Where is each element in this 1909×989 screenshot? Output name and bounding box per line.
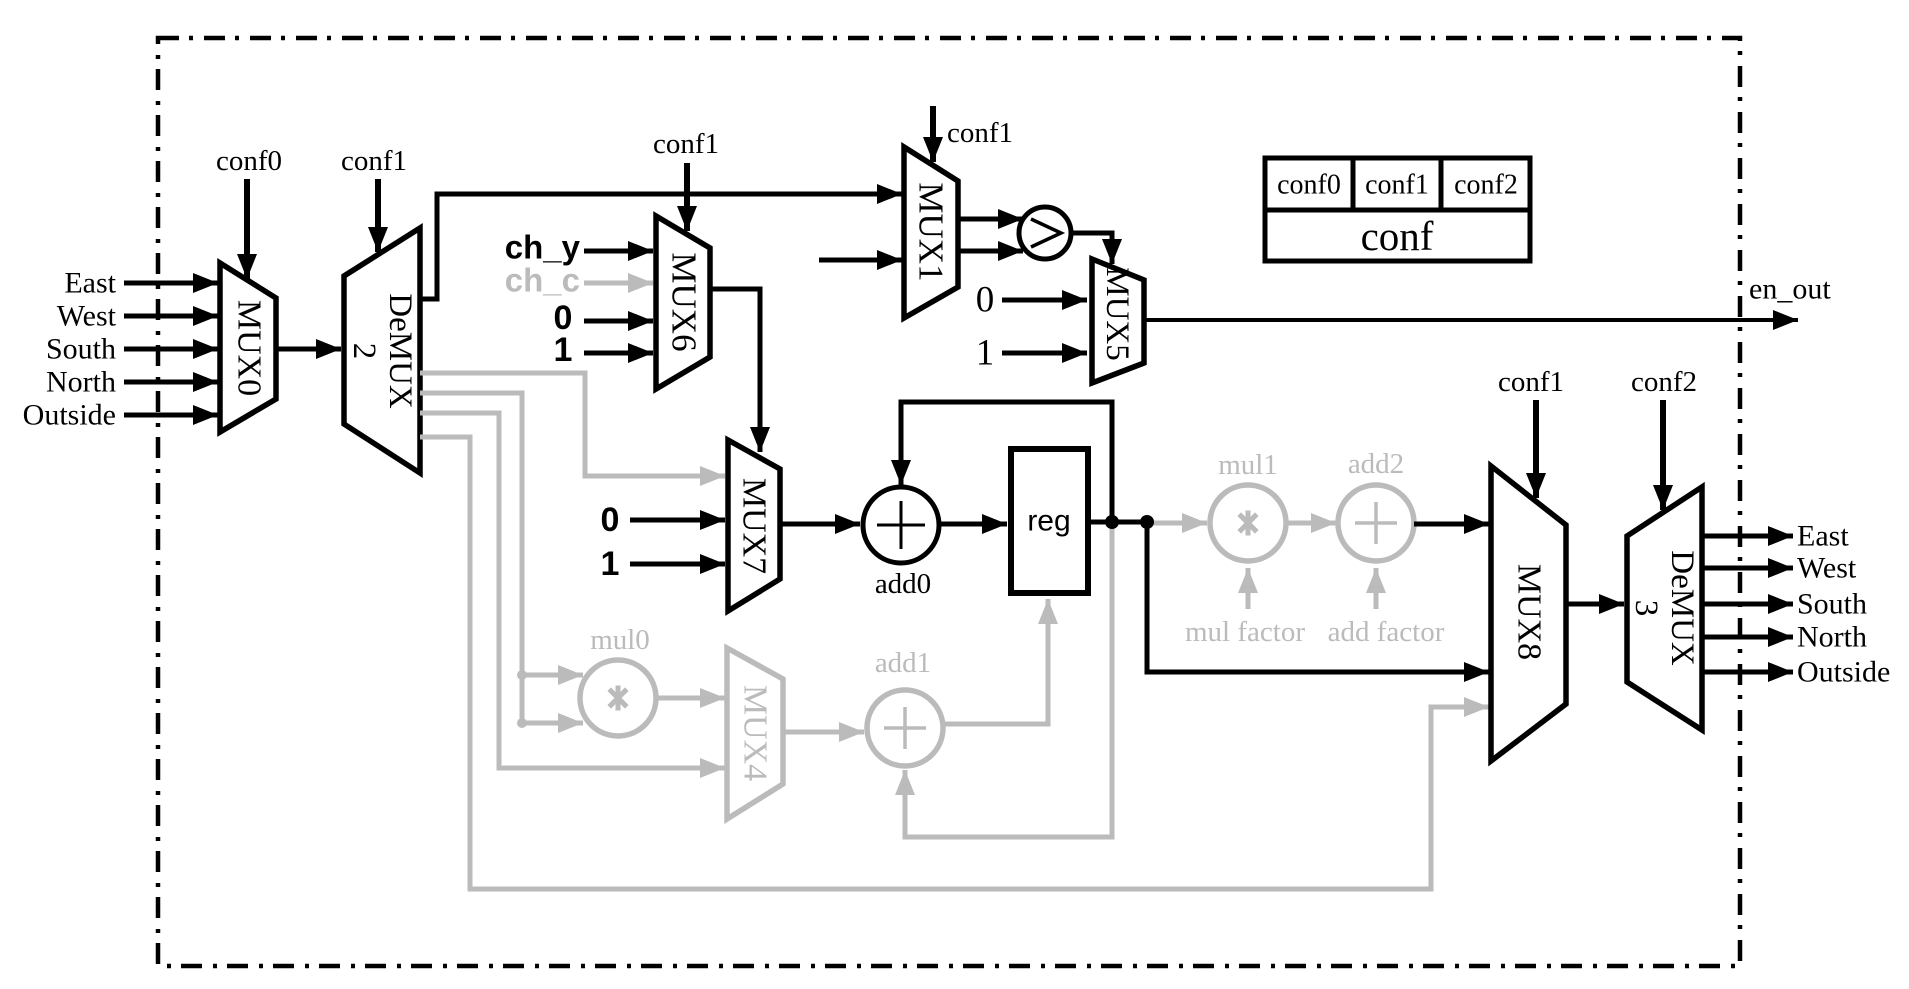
wire MUX1 output B to comparator <box>958 249 1023 254</box>
wire constant 0 to MUX6 <box>584 319 653 324</box>
wire branch to mul0 input B <box>522 721 583 726</box>
register reg <box>1011 449 1088 593</box>
svg-text:conf1: conf1 <box>1498 366 1564 398</box>
multiplier mul0 <box>580 660 656 736</box>
svg-text:conf0: conf0 <box>216 145 282 177</box>
svg-text:MUX7: MUX7 <box>736 478 773 574</box>
svg-text:MUX6: MUX6 <box>665 252 704 351</box>
svg-text:add2: add2 <box>1348 448 1404 480</box>
wire constant 1 to MUX6 <box>584 351 653 356</box>
label DeMUX2 <box>346 293 418 409</box>
add1 plus sign <box>884 707 926 749</box>
mux MUX6 <box>656 216 710 389</box>
svg-text:South: South <box>1797 588 1867 621</box>
node junction MUX8 tap <box>1140 515 1154 529</box>
wire DeMUX2 gray output to MUX7 <box>420 373 725 476</box>
svg-text:North: North <box>46 366 116 399</box>
svg-text:MUX5: MUX5 <box>1099 267 1135 361</box>
wire DeMUX2 output to MUX1 input A <box>420 194 902 299</box>
svg-text:DeMUX: DeMUX <box>382 293 418 409</box>
wire constant 0 to MUX5 <box>1002 298 1087 303</box>
demux DeMUX2 <box>344 228 420 473</box>
svg-text:MUX0: MUX0 <box>231 300 268 396</box>
wire input Outside to MUX0 <box>124 413 218 418</box>
wire ch_c to MUX6 <box>584 281 653 286</box>
wire input South to MUX0 <box>124 347 218 352</box>
svg-text:0: 0 <box>601 501 620 539</box>
svg-text:reg: reg <box>1027 505 1070 538</box>
svg-text:add1: add1 <box>875 647 931 679</box>
wire reg output down to MUX8 input B <box>1147 522 1489 672</box>
wire add factor into add2 <box>1374 568 1379 609</box>
wire reg output feedback to add0 <box>901 402 1112 522</box>
wire conf1 select into DeMUX2 <box>375 179 381 252</box>
svg-text:conf: conf <box>1361 213 1434 259</box>
svg-text:South: South <box>46 333 116 366</box>
svg-text:West: West <box>1797 552 1857 585</box>
wire conf0 select into MUX0 <box>244 179 250 279</box>
multiplier mul1 <box>1210 485 1286 561</box>
wire input B to MUX1 <box>819 258 902 263</box>
demux DeMUX3 <box>1627 487 1702 730</box>
label DeMUX3 <box>1628 550 1700 666</box>
wire MUX1 output A to comparator <box>958 217 1023 222</box>
wire DeMUX2 gray output down to mul0 <box>420 393 522 723</box>
add2 plus sign <box>1355 502 1397 544</box>
mul0 asterisk <box>609 686 627 711</box>
wire input East to MUX0 <box>124 281 218 286</box>
mux MUX4 <box>727 648 783 819</box>
wire ch_y to MUX6 <box>584 249 653 254</box>
wire mul1 output to add2 <box>1286 521 1336 526</box>
mux MUX0 <box>220 263 276 432</box>
node junction on mul0 branch A <box>517 670 527 680</box>
mux MUX8 <box>1491 466 1566 761</box>
node junction on mul0 branch B <box>517 718 527 728</box>
wire constant 1 to MUX5 <box>1002 351 1087 356</box>
wire DeMUX3 output West <box>1702 566 1793 571</box>
svg-text:en_out: en_out <box>1749 273 1831 306</box>
wire conf2 select into DeMUX3 <box>1660 400 1666 510</box>
svg-text:conf2: conf2 <box>1454 170 1518 201</box>
dash-dot boundary frame <box>158 38 1740 966</box>
add0 plus sign <box>877 501 925 549</box>
wire conf1 select into MUX1 <box>930 106 936 162</box>
svg-text:conf2: conf2 <box>1631 366 1697 398</box>
svg-text:Outside: Outside <box>23 399 116 432</box>
svg-text:DeMUX: DeMUX <box>1664 550 1700 666</box>
wire reg output to mul1 <box>1147 521 1207 526</box>
svg-text:mul1: mul1 <box>1218 449 1278 481</box>
svg-text:North: North <box>1797 621 1867 654</box>
wire mul factor into mul1 <box>1246 568 1251 609</box>
comparator greater-than symbol <box>1031 219 1061 247</box>
svg-text:conf1: conf1 <box>341 145 407 177</box>
wire add0 output to reg <box>939 522 1007 527</box>
wire MUX7 output to add0 <box>780 522 860 527</box>
svg-text:West: West <box>57 300 117 333</box>
wire branch to mul0 input A <box>522 673 583 678</box>
wire MUX5 output en_out <box>1144 318 1798 322</box>
svg-text:0: 0 <box>976 280 995 321</box>
adder add2 <box>1338 485 1414 561</box>
svg-text:MUX1: MUX1 <box>912 182 951 281</box>
svg-text:2: 2 <box>346 343 382 360</box>
svg-text:MUX8: MUX8 <box>1511 564 1548 660</box>
svg-text:mul0: mul0 <box>590 624 650 656</box>
wire comparator output to MUX5 <box>1071 233 1112 264</box>
wire DeMUX3 output South <box>1702 602 1793 607</box>
svg-text:East: East <box>64 267 116 300</box>
wire add1 output up into reg <box>943 599 1048 724</box>
wire reg output feedback down to add1 <box>905 522 1112 837</box>
svg-text:MUX4: MUX4 <box>737 685 774 781</box>
adder add1 <box>867 690 943 766</box>
svg-text:add0: add0 <box>875 568 931 600</box>
wire input West to MUX0 <box>124 314 218 319</box>
wire DeMUX2 gray output to MUX4 <box>420 413 725 768</box>
wire DeMUX3 output East <box>1702 534 1793 539</box>
wire DeMUX3 output North <box>1702 635 1793 640</box>
adder add0 <box>863 487 939 563</box>
svg-text:mul factor: mul factor <box>1185 616 1305 648</box>
node junction feedback tap <box>1105 515 1119 529</box>
svg-text:Outside: Outside <box>1797 656 1890 689</box>
svg-text:1: 1 <box>554 331 573 369</box>
mux MUX5 <box>1092 259 1144 383</box>
wire conf1 select into MUX8 <box>1533 400 1539 498</box>
wire MUX0 output to DeMUX2 <box>276 347 341 352</box>
wire conf1 select into MUX6 <box>684 163 690 231</box>
wire reg output <box>1088 520 1147 525</box>
wire input North to MUX0 <box>124 380 218 385</box>
svg-text:conf1: conf1 <box>1365 170 1429 201</box>
wire constant 1 to MUX7 <box>630 562 725 567</box>
wire MUX4 output to add1 <box>783 730 864 735</box>
svg-text:conf1: conf1 <box>947 117 1013 149</box>
wire DeMUX2 gray output along bottom to MUX8 <box>420 437 1489 889</box>
svg-text:East: East <box>1797 520 1849 553</box>
svg-text:conf1: conf1 <box>653 128 719 160</box>
svg-text:1: 1 <box>601 545 620 583</box>
wire constant 0 to MUX7 <box>630 518 725 523</box>
svg-text:conf0: conf0 <box>1277 170 1341 201</box>
svg-text:add factor: add factor <box>1328 616 1445 648</box>
wire add2 output to MUX8 input A <box>1414 522 1489 527</box>
svg-text:3: 3 <box>1628 600 1664 617</box>
wire mul0 output to MUX4 <box>656 696 725 701</box>
svg-text:ch_c: ch_c <box>505 262 580 299</box>
svg-text:ch_y: ch_y <box>505 229 581 266</box>
comparator U-gt <box>1019 207 1071 259</box>
svg-text:1: 1 <box>976 333 995 374</box>
wire MUX6 output down to MUX7 <box>710 289 760 452</box>
conf register table <box>1265 158 1530 261</box>
mul1 asterisk <box>1239 511 1257 536</box>
mux MUX1 <box>904 147 958 318</box>
wire DeMUX3 output Outside <box>1702 670 1793 675</box>
mux MUX7 <box>728 440 780 611</box>
wire MUX8 output to DeMUX3 <box>1566 602 1624 607</box>
